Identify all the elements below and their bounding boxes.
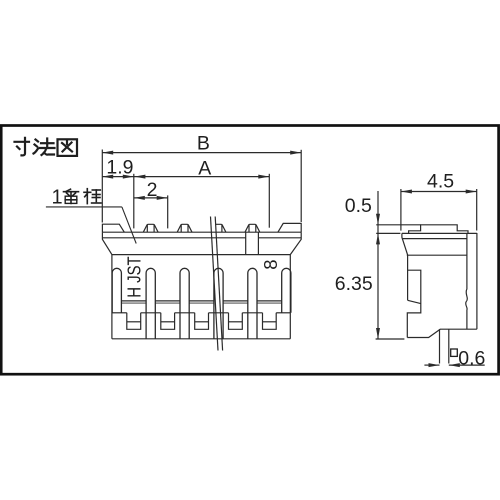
svg-text:6.35: 6.35 (335, 273, 373, 295)
solder pin leg left line (439, 329, 441, 363)
bottom notch 5 (263, 313, 277, 330)
recess floor lines segment 3 (189, 300, 214, 302)
bottom notch 1 (127, 313, 141, 330)
svg-text:1.9: 1.9 (106, 156, 133, 178)
polarity bump 2 on rim (177, 224, 192, 232)
contact slot 3 (214, 268, 223, 339)
front view left chamfer edge (102, 232, 112, 254)
bottom shelf line (112, 312, 127, 314)
dimension 0.6 line left segment (424, 364, 439, 366)
front view rim right end block (278, 223, 301, 232)
break line 1 (211, 217, 219, 351)
svg-text:0.6: 0.6 (458, 347, 485, 369)
extension line at A right end x=269.3 (268, 174, 270, 228)
solder pin leg right line (448, 329, 450, 363)
extension line at bump top y=224.8 (376, 224, 420, 226)
front view rim second line (left of boss) (102, 237, 245, 239)
svg-text:1: 1 (52, 187, 63, 209)
side view rim second line (402, 238, 467, 240)
recess floor lines segment 4 (223, 300, 248, 302)
front view right chamfer edge (290, 232, 301, 254)
polarity bump 4 on rim (245, 224, 260, 232)
right end half slot (282, 268, 291, 312)
side view top latch bump (409, 225, 468, 234)
boss channel below bump 4 (245, 232, 247, 254)
recess floor lines segment 2 (155, 300, 180, 302)
front view body right edge (289, 255, 291, 339)
svg-text:4.5: 4.5 (427, 171, 454, 193)
front view body bottom edge (112, 338, 290, 340)
contact slot 4 (248, 268, 257, 339)
extension line left (B / housing left) (101, 150, 103, 223)
leader line from 1番極 to housing (46, 206, 122, 208)
svg-text:A: A (198, 158, 211, 180)
extension line 4.5 right (476, 189, 478, 231)
side view wire pocket (407, 270, 421, 337)
dimension 4.5 line (401, 191, 477, 193)
extension line at 6.35 bottom y=339 (376, 338, 405, 340)
bottom notch 2 (161, 313, 175, 330)
dimension 0.6 line right segment (449, 364, 485, 366)
title text 寸法図 (dimension drawing) (15, 138, 78, 156)
front view rim top line (102, 231, 301, 233)
drawing frame border (1, 126, 498, 375)
side view rim top line (402, 232, 477, 234)
break line 2 (215, 217, 222, 351)
extension line 4.5 left (400, 189, 402, 231)
front view rim second line (right of boss) (258, 237, 301, 239)
svg-text:8: 8 (260, 260, 281, 270)
svg-text:2: 2 (147, 179, 158, 201)
extension line at second cell boundary x=167.6 (167, 195, 169, 228)
square symbol for 0.6 (451, 349, 458, 356)
recess floor lines segment 5 (257, 300, 282, 302)
front view body left edge (111, 255, 113, 339)
contact slot 2 (180, 268, 189, 339)
side view inner wall line with break squiggle (466, 233, 468, 329)
front view rim left end block (102, 224, 124, 232)
extension line at rim top y=233.4 (376, 232, 400, 234)
dimension B line (102, 152, 301, 154)
dimension A and 1.9 line (102, 176, 269, 178)
extension line at first cell boundary x=133.7 (133, 174, 135, 229)
polarity bump 1 on rim (143, 224, 158, 232)
side view outer wall right edge (476, 233, 478, 329)
side view left edge with chamfer (402, 233, 408, 300)
recess floor lines segment 1 (121, 300, 146, 302)
bottom notch 3 (195, 313, 209, 330)
extension line right (B / housing right) (300, 150, 302, 222)
svg-text:0.5: 0.5 (345, 195, 372, 217)
svg-text:B: B (197, 132, 210, 154)
side view bottom outline with foot (407, 329, 477, 337)
side view left jog (408, 300, 421, 303)
dimension 2 (pitch) line (134, 197, 168, 199)
bottom notch 4 (229, 313, 243, 330)
dimension 0.5 and 6.35 vertical line (377, 191, 379, 339)
polarity bump 3 on rim (216, 224, 226, 232)
contact slot 1 (146, 268, 155, 339)
side view body top line (407, 254, 467, 256)
left end half slot (112, 268, 121, 313)
front view body top line (112, 254, 290, 256)
svg-text:H JST: H JST (124, 256, 144, 298)
